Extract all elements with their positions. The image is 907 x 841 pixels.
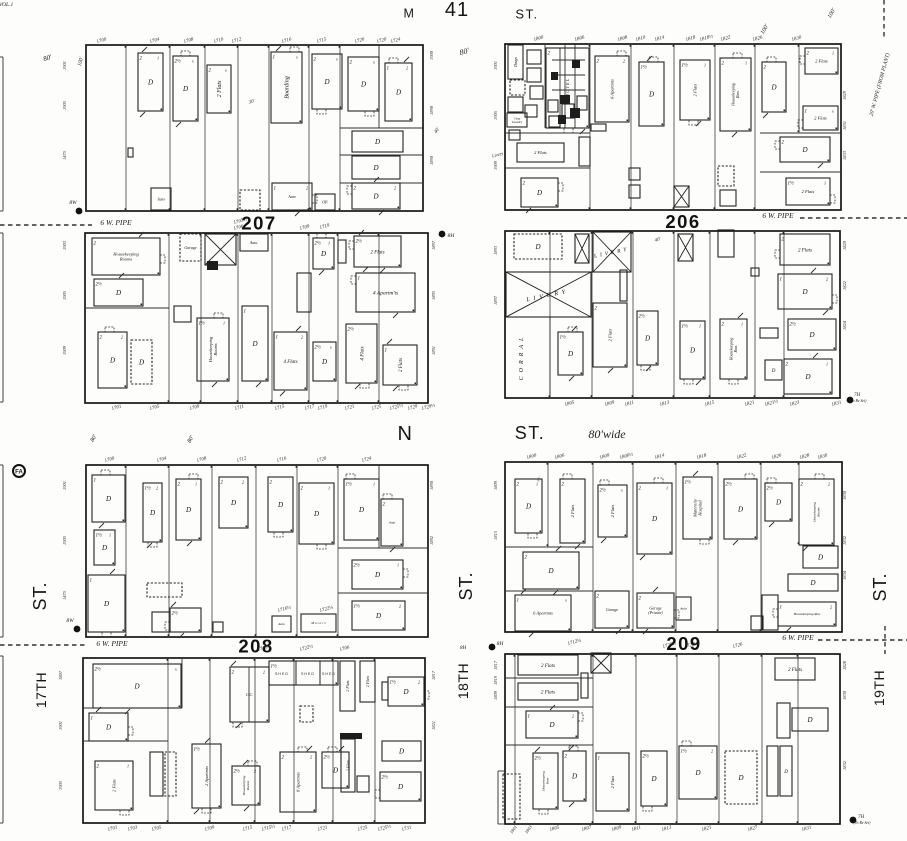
svg-text:1: 1	[780, 606, 783, 611]
svg-text:1475: 1475	[62, 590, 67, 600]
svg-text:D: D	[133, 682, 139, 690]
svg-text:Boarding: Boarding	[285, 76, 291, 98]
svg-text:2½: 2½	[790, 323, 797, 328]
svg-text:2½: 2½	[600, 489, 607, 494]
svg-text:2 Flats: 2 Flats	[788, 668, 802, 673]
svg-text:Garage: Garage	[184, 245, 196, 250]
svg-text:1: 1	[699, 324, 701, 329]
svg-text:(To Be Set): (To Be Set)	[854, 821, 871, 825]
svg-text:1905: 1905	[493, 110, 498, 120]
svg-text:1822: 1822	[842, 280, 847, 290]
svg-text:1909: 1909	[493, 160, 498, 170]
svg-text:1: 1	[528, 715, 531, 720]
svg-text:D: D	[402, 688, 408, 696]
svg-text:1905: 1905	[62, 535, 67, 545]
svg-text:x: x	[174, 667, 177, 672]
svg-text:18TH: 18TH	[455, 663, 471, 699]
svg-text:D: D	[648, 90, 654, 98]
svg-text:1897: 1897	[493, 295, 498, 305]
svg-text:2: 2	[418, 680, 420, 685]
svg-text:1: 1	[223, 321, 225, 326]
svg-text:2: 2	[242, 480, 244, 485]
svg-text:1: 1	[598, 757, 601, 762]
svg-text:1: 1	[276, 336, 279, 341]
svg-text:1: 1	[157, 56, 159, 61]
svg-text:4 Flats: 4 Flats	[283, 360, 297, 365]
svg-text:1833: 1833	[842, 150, 847, 160]
svg-text:2: 2	[121, 335, 123, 340]
svg-text:2: 2	[406, 66, 408, 71]
svg-text:HE. VOL.1: HE. VOL.1	[0, 2, 13, 8]
svg-text:D: D	[332, 766, 338, 774]
svg-text:1809: 1809	[493, 690, 498, 700]
svg-text:1: 1	[90, 579, 93, 584]
svg-text:2½: 2½	[324, 756, 331, 761]
svg-text:D: D	[567, 350, 573, 358]
svg-text:206: 206	[665, 211, 700, 232]
svg-text:D: D	[115, 289, 121, 297]
svg-text:D: D	[775, 498, 781, 506]
svg-text:1: 1	[780, 278, 783, 283]
svg-text:ST.: ST.	[515, 423, 546, 443]
svg-text:2 Flats: 2 Flats	[541, 664, 555, 669]
svg-text:D: D	[737, 505, 743, 513]
svg-text:1: 1	[274, 187, 277, 192]
svg-text:1: 1	[704, 63, 706, 68]
svg-text:80'wide: 80'wide	[588, 427, 626, 441]
svg-text:Auto: Auto	[388, 521, 396, 525]
svg-text:D: D	[321, 358, 327, 366]
svg-text:2 Flats: 2 Flats	[370, 250, 384, 255]
svg-text:Housekeeping Rms: Housekeeping Rms	[793, 612, 821, 616]
svg-text:1809: 1809	[493, 480, 498, 490]
svg-text:2: 2	[263, 670, 265, 675]
svg-text:1895: 1895	[431, 290, 436, 300]
svg-text:1890: 1890	[429, 155, 434, 165]
svg-text:6 W. PIPE: 6 W. PIPE	[782, 633, 814, 642]
svg-text:1817: 1817	[431, 670, 436, 680]
svg-text:2½: 2½	[315, 242, 322, 247]
svg-text:1½: 1½	[96, 534, 103, 539]
svg-text:1: 1	[328, 486, 330, 491]
svg-text:D: D	[105, 723, 111, 731]
svg-text:1½: 1½	[390, 681, 397, 686]
svg-text:1901: 1901	[62, 61, 67, 70]
svg-text:1: 1	[244, 310, 247, 315]
svg-text:D: D	[770, 83, 776, 91]
svg-text:1: 1	[328, 241, 330, 246]
svg-text:D: D	[525, 502, 531, 510]
svg-text:41: 41	[445, 0, 469, 21]
svg-text:1: 1	[397, 563, 399, 568]
svg-text:ST.: ST.	[870, 572, 890, 601]
svg-text:2 Flats: 2 Flats	[534, 150, 547, 155]
svg-text:Garage: Garage	[606, 607, 618, 612]
svg-text:6 W. PIPE: 6 W. PIPE	[762, 211, 794, 220]
svg-text:1½: 1½	[199, 322, 206, 327]
svg-text:2 Flats: 2 Flats	[112, 779, 117, 792]
svg-text:Rooms: Rooms	[246, 780, 250, 791]
svg-text:4 Flats: 4 Flats	[360, 346, 365, 360]
svg-text:x: x	[295, 55, 298, 60]
svg-text:19TH: 19TH	[871, 670, 887, 706]
svg-text:2: 2	[301, 335, 303, 340]
svg-text:2: 2	[830, 605, 832, 610]
svg-text:1½: 1½	[681, 750, 688, 755]
svg-text:2½: 2½	[535, 757, 542, 762]
svg-text:D: D	[644, 334, 650, 342]
svg-text:1900: 1900	[429, 50, 434, 60]
svg-text:SHED: SHED	[301, 672, 315, 676]
svg-text:x: x	[620, 488, 623, 493]
svg-text:Auto: Auto	[679, 607, 687, 611]
svg-text:2 Flats: 2 Flats	[610, 775, 615, 788]
svg-text:D: D	[375, 612, 381, 620]
svg-text:1½: 1½	[641, 66, 648, 71]
svg-text:1830: 1830	[842, 490, 847, 500]
svg-text:x: x	[372, 60, 375, 65]
svg-text:x: x	[564, 598, 567, 603]
svg-text:D: D	[251, 340, 257, 348]
svg-text:1: 1	[94, 479, 97, 484]
svg-text:1: 1	[358, 277, 361, 282]
svg-text:D: D	[372, 192, 378, 200]
svg-text:1819: 1819	[493, 675, 498, 685]
svg-text:1½: 1½	[682, 64, 689, 69]
svg-text:2 Flats: 2 Flats	[798, 248, 812, 253]
svg-text:1834: 1834	[842, 570, 847, 580]
svg-text:1½: 1½	[788, 182, 795, 187]
svg-text:D: D	[105, 495, 111, 503]
svg-text:x: x	[191, 59, 194, 64]
svg-text:1832: 1832	[842, 535, 847, 545]
svg-text:1821: 1821	[431, 721, 436, 730]
svg-text:1829: 1829	[842, 90, 847, 100]
svg-text:1: 1	[387, 67, 390, 72]
svg-text:1897: 1897	[431, 240, 436, 250]
svg-text:1815: 1815	[493, 530, 498, 540]
svg-text:2: 2	[711, 749, 713, 754]
svg-text:1891: 1891	[431, 346, 436, 355]
svg-text:2½: 2½	[315, 346, 322, 351]
svg-text:D: D	[323, 78, 329, 86]
svg-text:2: 2	[156, 486, 158, 491]
svg-text:2½: 2½	[172, 612, 179, 617]
svg-text:Rooms: Rooms	[119, 257, 132, 262]
svg-text:2 Flats: 2 Flats	[610, 504, 615, 517]
svg-text:D: D	[397, 783, 403, 791]
svg-text:2: 2	[623, 59, 625, 64]
svg-text:1: 1	[741, 322, 743, 327]
svg-text:1½: 1½	[560, 336, 567, 341]
svg-text:D: D	[103, 600, 109, 608]
svg-text:4 Apartm'ts: 4 Apartm'ts	[373, 289, 398, 296]
svg-text:1½: 1½	[145, 487, 152, 492]
svg-text:CORRAL: CORRAL	[519, 334, 525, 381]
svg-text:x: x	[224, 68, 227, 73]
svg-text:D: D	[548, 721, 554, 729]
svg-text:1828: 1828	[842, 660, 847, 670]
svg-text:D: D	[395, 88, 401, 96]
svg-text:1905: 1905	[62, 100, 67, 110]
svg-text:1: 1	[385, 349, 388, 354]
svg-text:1: 1	[666, 486, 668, 491]
svg-text:2: 2	[399, 604, 401, 609]
svg-text:1: 1	[824, 181, 826, 186]
svg-text:2½: 2½	[96, 283, 103, 288]
svg-text:Rooms: Rooms	[817, 507, 821, 518]
svg-text:1: 1	[373, 482, 375, 487]
svg-text:2 Flats: 2 Flats	[541, 690, 555, 695]
svg-text:1: 1	[805, 110, 808, 115]
svg-text:SHED: SHED	[275, 672, 289, 676]
svg-text:(To Be Set): (To Be Set)	[850, 399, 867, 403]
svg-text:2½: 2½	[354, 564, 361, 569]
svg-text:1901: 1901	[62, 481, 67, 490]
svg-text:D: D	[372, 164, 378, 172]
svg-text:2½: 2½	[234, 770, 241, 775]
svg-text:2 Flats: 2 Flats	[815, 59, 828, 64]
svg-text:8H: 8H	[448, 233, 456, 239]
svg-text:1890: 1890	[429, 480, 434, 490]
svg-text:6 Apartmts: 6 Apartmts	[610, 79, 615, 99]
svg-text:2 Flats: 2 Flats	[570, 504, 575, 517]
svg-text:1: 1	[826, 362, 828, 367]
svg-text:x: x	[329, 345, 332, 350]
svg-text:2 Flats: 2 Flats	[399, 358, 404, 372]
svg-text:1909: 1909	[62, 345, 67, 355]
svg-text:2 Flats: 2 Flats	[217, 80, 223, 97]
svg-text:D: D	[109, 356, 115, 364]
svg-text:2 Apartmts: 2 Apartmts	[204, 766, 209, 786]
svg-text:207: 207	[241, 213, 276, 234]
svg-text:1½: 1½	[354, 605, 361, 610]
svg-text:1: 1	[127, 764, 129, 769]
svg-text:7H: 7H	[858, 815, 865, 820]
svg-text:2 Flats: 2 Flats	[345, 759, 350, 771]
svg-text:2: 2	[254, 769, 256, 774]
svg-text:1824: 1824	[842, 320, 847, 330]
svg-text:OP.: OP.	[322, 199, 328, 204]
svg-text:C.C.: C.C.	[246, 692, 253, 697]
svg-text:1: 1	[195, 482, 197, 487]
svg-text:1905: 1905	[62, 290, 67, 300]
svg-text:1: 1	[517, 599, 520, 604]
svg-text:8H: 8H	[497, 641, 505, 647]
svg-text:1: 1	[109, 533, 111, 538]
svg-text:D: D	[547, 567, 553, 575]
svg-text:D: D	[277, 501, 283, 509]
svg-text:D: D	[650, 775, 656, 783]
svg-text:1½: 1½	[346, 483, 353, 488]
svg-text:D: D	[182, 85, 188, 93]
svg-text:D: D	[185, 506, 191, 514]
svg-text:ST.: ST.	[30, 581, 50, 610]
svg-text:D: D	[801, 288, 807, 296]
svg-text:1: 1	[832, 51, 834, 56]
svg-text:2: 2	[826, 277, 828, 282]
svg-text:D: D	[320, 250, 326, 258]
svg-text:17TH: 17TH	[33, 672, 49, 708]
svg-text:2½: 2½	[726, 483, 733, 488]
svg-text:D: D	[358, 506, 364, 514]
svg-text:1905: 1905	[58, 780, 63, 790]
svg-text:Auto: Auto	[156, 196, 165, 201]
svg-text:D: D	[809, 579, 815, 587]
svg-text:Hospital: Hospital	[698, 500, 703, 517]
svg-text:FA: FA	[15, 470, 23, 476]
svg-text:1½: 1½	[194, 748, 201, 753]
svg-text:D: D	[534, 243, 540, 251]
svg-text:1901: 1901	[493, 61, 498, 70]
svg-text:2½: 2½	[348, 328, 355, 333]
svg-text:8H: 8H	[460, 646, 467, 651]
svg-text:D: D	[801, 146, 807, 154]
svg-text:6 Apartmts: 6 Apartmts	[533, 611, 553, 616]
svg-text:D: D	[149, 509, 155, 517]
svg-text:8W: 8W	[66, 618, 74, 624]
svg-text:2 Flats: 2 Flats	[365, 675, 370, 687]
svg-text:1901: 1901	[58, 721, 63, 730]
svg-text:1892: 1892	[429, 535, 434, 545]
svg-text:D: D	[536, 189, 542, 197]
svg-text:1475: 1475	[62, 150, 67, 160]
svg-text:D: D	[817, 553, 823, 561]
svg-text:x: x	[831, 109, 834, 114]
svg-text:2: 2	[828, 482, 830, 487]
svg-text:2 Flats: 2 Flats	[802, 189, 815, 194]
svg-text:2½: 2½	[639, 315, 646, 320]
svg-text:D: D	[737, 774, 743, 782]
svg-text:2: 2	[306, 186, 308, 191]
svg-text:M o t o r s: M o t o r s	[310, 621, 326, 625]
svg-text:D: D	[571, 772, 577, 780]
svg-text:8 Apartmts: 8 Apartmts	[296, 772, 301, 792]
svg-text:2½: 2½	[175, 60, 182, 65]
svg-text:1903: 1903	[62, 240, 67, 250]
svg-text:Drugs: Drugs	[513, 57, 518, 68]
svg-text:Rms: Rms	[733, 345, 738, 353]
svg-text:D: D	[101, 544, 107, 552]
svg-text:2½: 2½	[382, 776, 389, 781]
svg-text:2 Flats: 2 Flats	[693, 83, 698, 96]
svg-text:1898: 1898	[429, 105, 434, 115]
svg-text:2½: 2½	[95, 668, 102, 673]
svg-text:N: N	[398, 423, 413, 445]
svg-text:1832: 1832	[842, 760, 847, 770]
svg-text:1½: 1½	[685, 481, 692, 486]
svg-text:SHED: SHED	[322, 672, 336, 676]
svg-text:1: 1	[745, 61, 747, 66]
svg-text:(Private): (Private)	[648, 610, 663, 615]
svg-text:1: 1	[91, 717, 94, 722]
svg-text:1½: 1½	[682, 325, 689, 330]
svg-text:D: D	[398, 747, 404, 755]
svg-text:6 W. PIPE: 6 W. PIPE	[100, 218, 132, 227]
svg-text:D: D	[806, 716, 812, 724]
svg-text:2 Flats: 2 Flats	[345, 680, 350, 692]
svg-text:D: D	[689, 346, 695, 354]
svg-text:D: D	[771, 369, 776, 374]
svg-text:D: D	[147, 78, 153, 86]
svg-text:M: M	[404, 7, 415, 21]
svg-text:1831: 1831	[842, 121, 847, 130]
svg-text:1830: 1830	[842, 690, 847, 700]
svg-text:D: D	[804, 373, 810, 381]
svg-text:2: 2	[394, 186, 396, 191]
svg-text:1820: 1820	[842, 240, 847, 250]
svg-text:2½: 2½	[643, 755, 650, 760]
svg-text:D: D	[651, 515, 657, 523]
svg-text:6 W. PIPE: 6 W. PIPE	[96, 639, 128, 648]
svg-text:1807: 1807	[58, 670, 63, 680]
svg-text:D: D	[694, 769, 700, 777]
svg-text:7H: 7H	[854, 393, 861, 398]
svg-text:ST.: ST.	[456, 571, 476, 600]
svg-text:8W: 8W	[69, 200, 77, 206]
svg-text:1½: 1½	[271, 665, 278, 670]
svg-text:Auto: Auto	[287, 194, 296, 199]
svg-text:D: D	[374, 571, 380, 579]
svg-text:D: D	[313, 510, 319, 518]
svg-text:Auto: Auto	[277, 622, 285, 626]
svg-text:Rooms: Rooms	[213, 343, 218, 356]
svg-text:2 Flats: 2 Flats	[814, 116, 827, 121]
svg-text:x: x	[335, 57, 338, 62]
svg-text:D: D	[783, 770, 788, 775]
svg-text:2½: 2½	[356, 240, 363, 245]
svg-text:D: D	[138, 358, 144, 366]
svg-text:2: 2	[310, 755, 312, 760]
svg-text:2 Flats: 2 Flats	[608, 328, 613, 341]
svg-text:Auto.: Auto.	[249, 240, 259, 245]
svg-text:2: 2	[572, 714, 574, 719]
svg-text:1: 1	[273, 56, 276, 61]
svg-text:Laundry: Laundry	[511, 120, 523, 124]
svg-text:1893: 1893	[493, 245, 498, 255]
svg-text:Rms: Rms	[735, 91, 740, 99]
svg-text:D: D	[374, 138, 380, 146]
svg-text:D: D	[230, 499, 236, 507]
svg-text:1817: 1817	[493, 660, 498, 670]
svg-text:2½: 2½	[767, 487, 774, 492]
svg-text:ST.: ST.	[515, 7, 538, 22]
svg-text:D: D	[808, 331, 814, 339]
svg-text:Rms: Rms	[546, 777, 550, 785]
svg-text:D: D	[360, 80, 366, 88]
